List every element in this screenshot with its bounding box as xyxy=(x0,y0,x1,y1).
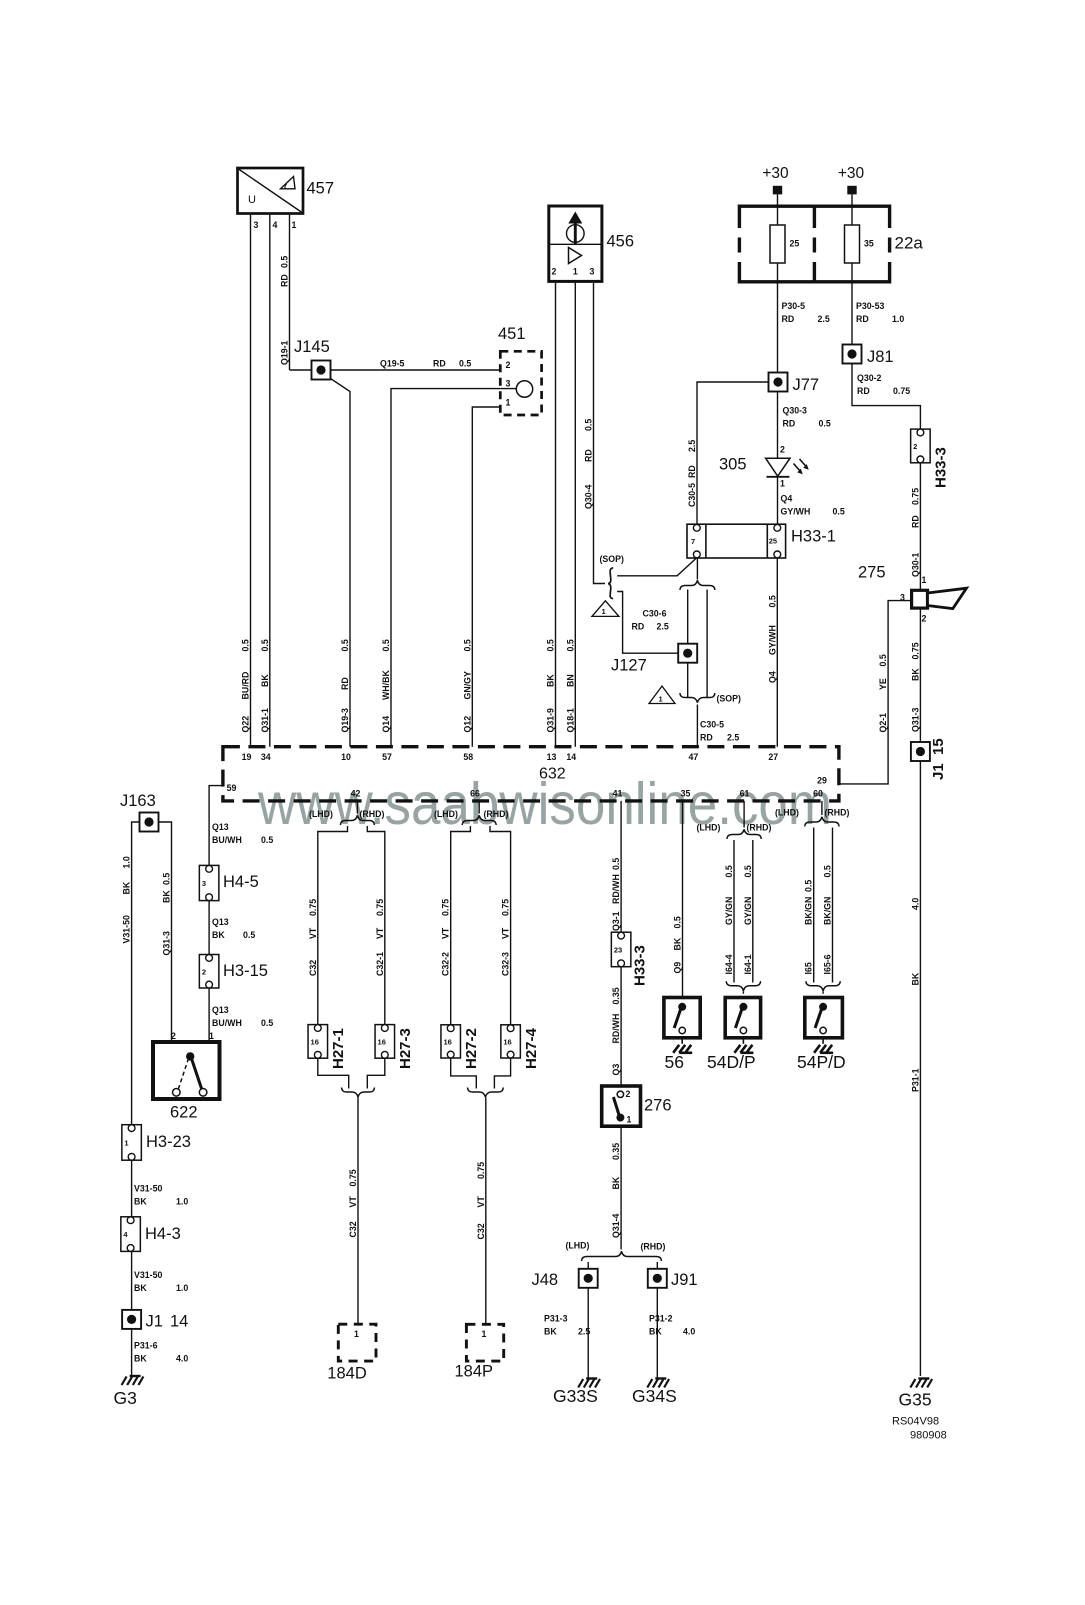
svg-text:P31-3: P31-3 xyxy=(544,1314,568,1324)
svg-text:(RHD): (RHD) xyxy=(484,809,509,819)
svg-text:(LHD): (LHD) xyxy=(566,1241,590,1251)
svg-text:C30-5: C30-5 xyxy=(687,483,697,507)
svg-text:0.5: 0.5 xyxy=(260,639,270,651)
svg-text:H33-1: H33-1 xyxy=(791,528,836,546)
svg-text:0.75: 0.75 xyxy=(308,899,318,916)
svg-text:VT: VT xyxy=(375,927,385,939)
svg-text:U: U xyxy=(248,194,256,206)
svg-text:I64-4: I64-4 xyxy=(724,954,734,974)
svg-text:4: 4 xyxy=(273,220,278,230)
svg-text:1: 1 xyxy=(659,695,663,704)
svg-text:VT: VT xyxy=(501,927,511,939)
svg-text:C32: C32 xyxy=(476,1223,486,1239)
svg-text:GY/WH: GY/WH xyxy=(767,625,777,655)
svg-text:J1 15: J1 15 xyxy=(930,738,947,780)
svg-text:34: 34 xyxy=(261,752,271,762)
svg-text:WH/BK: WH/BK xyxy=(381,670,391,700)
svg-text:BU/WH: BU/WH xyxy=(212,1018,242,1028)
svg-text:0.75: 0.75 xyxy=(910,488,920,505)
svg-text:RD: RD xyxy=(782,314,795,324)
svg-text:Q9: Q9 xyxy=(673,962,683,974)
svg-text:35: 35 xyxy=(864,239,874,249)
svg-text:BU/WH: BU/WH xyxy=(212,835,242,845)
svg-text:2: 2 xyxy=(780,445,785,455)
svg-text:BU/RD: BU/RD xyxy=(241,672,251,700)
svg-text:(RHD): (RHD) xyxy=(825,808,850,818)
svg-text:YE: YE xyxy=(878,678,888,690)
svg-text:Q30-3: Q30-3 xyxy=(783,406,808,416)
svg-text:3: 3 xyxy=(202,879,206,888)
svg-text:(RHD): (RHD) xyxy=(747,823,772,833)
svg-text:0.5: 0.5 xyxy=(162,873,172,885)
svg-text:1: 1 xyxy=(602,607,606,616)
svg-text:Q2-1: Q2-1 xyxy=(878,713,888,733)
svg-text:Q13: Q13 xyxy=(212,917,229,927)
svg-text:184P: 184P xyxy=(455,1363,494,1381)
svg-text:14: 14 xyxy=(566,752,576,762)
svg-text:3: 3 xyxy=(506,379,511,389)
svg-text:G35: G35 xyxy=(899,1390,932,1410)
svg-text:Q30-4: Q30-4 xyxy=(584,484,594,509)
svg-text:3: 3 xyxy=(589,267,594,277)
svg-text:Q19-1: Q19-1 xyxy=(280,340,290,365)
svg-text:305: 305 xyxy=(719,456,747,474)
svg-text:4.0: 4.0 xyxy=(683,1327,695,1337)
svg-text:VT: VT xyxy=(308,927,318,939)
svg-text:Q13: Q13 xyxy=(212,822,229,832)
svg-text:275: 275 xyxy=(858,564,886,582)
svg-text:1.0: 1.0 xyxy=(176,1197,188,1207)
svg-text:P31-6: P31-6 xyxy=(134,1341,158,1351)
svg-text:J77: J77 xyxy=(793,376,820,394)
svg-text:BK: BK xyxy=(546,674,556,687)
svg-text:19: 19 xyxy=(242,752,252,762)
svg-text:2: 2 xyxy=(171,1031,176,1041)
svg-text:(LHD): (LHD) xyxy=(434,809,458,819)
svg-text:0.5: 0.5 xyxy=(340,639,350,651)
svg-text:RD/WH: RD/WH xyxy=(611,874,621,904)
svg-text:0.5: 0.5 xyxy=(611,858,621,870)
svg-text:1: 1 xyxy=(124,1138,128,1147)
svg-text:456: 456 xyxy=(607,233,635,251)
svg-text:2: 2 xyxy=(202,967,206,976)
svg-text:632: 632 xyxy=(539,766,566,783)
svg-text:RD: RD xyxy=(856,314,869,324)
svg-text:1: 1 xyxy=(922,575,927,585)
svg-text:25: 25 xyxy=(790,239,800,249)
svg-text:Q14: Q14 xyxy=(381,716,391,733)
svg-text:2: 2 xyxy=(626,1089,631,1099)
svg-text:1.0: 1.0 xyxy=(892,314,904,324)
svg-text:54P/D: 54P/D xyxy=(797,1052,846,1072)
svg-text:RD: RD xyxy=(783,419,796,429)
svg-text:GY/WH: GY/WH xyxy=(781,507,811,517)
svg-text:Q12: Q12 xyxy=(462,716,472,733)
svg-text:0.75: 0.75 xyxy=(375,899,385,916)
svg-text:54D/P: 54D/P xyxy=(707,1052,756,1072)
svg-text:BK/GN: BK/GN xyxy=(804,897,814,925)
svg-text:BK: BK xyxy=(122,881,132,894)
svg-text:H27-3: H27-3 xyxy=(397,1028,414,1069)
svg-text:RD/WH: RD/WH xyxy=(611,1014,621,1044)
svg-text:16: 16 xyxy=(503,1037,511,1046)
svg-text:H4-5: H4-5 xyxy=(223,873,259,891)
svg-text:C32: C32 xyxy=(308,960,318,976)
svg-text:BK: BK xyxy=(544,1327,557,1337)
svg-text:C32-2: C32-2 xyxy=(441,952,451,976)
svg-text:G3: G3 xyxy=(114,1388,137,1408)
svg-text:(LHD): (LHD) xyxy=(697,823,721,833)
svg-text:0.5: 0.5 xyxy=(804,880,814,892)
svg-text:RD: RD xyxy=(857,386,870,396)
svg-text:16: 16 xyxy=(443,1037,451,1046)
svg-text:2: 2 xyxy=(506,360,511,370)
svg-text:59: 59 xyxy=(227,783,237,793)
svg-text:0.5: 0.5 xyxy=(381,639,391,651)
svg-text:2.5: 2.5 xyxy=(818,314,830,324)
svg-text:C32: C32 xyxy=(348,1221,358,1237)
svg-text:1.0: 1.0 xyxy=(176,1283,188,1293)
svg-text:0.5: 0.5 xyxy=(462,639,472,651)
svg-text:61: 61 xyxy=(740,789,750,799)
svg-text:0.5: 0.5 xyxy=(261,835,273,845)
svg-text:Q13: Q13 xyxy=(212,1005,229,1015)
svg-text:BK: BK xyxy=(212,930,225,940)
svg-text:RD: RD xyxy=(584,449,594,462)
svg-text:J1: J1 xyxy=(146,1313,163,1331)
svg-text:56: 56 xyxy=(665,1052,684,1072)
svg-text:1: 1 xyxy=(354,1329,359,1339)
svg-text:VT: VT xyxy=(476,1196,486,1208)
svg-text:1: 1 xyxy=(506,398,511,408)
svg-text:0.75: 0.75 xyxy=(893,386,910,396)
svg-text:Q31-1: Q31-1 xyxy=(260,708,270,733)
svg-text:H27-1: H27-1 xyxy=(330,1028,347,1069)
svg-text:(LHD): (LHD) xyxy=(775,808,799,818)
svg-text:0.75: 0.75 xyxy=(501,899,511,916)
svg-text:1.0: 1.0 xyxy=(122,856,132,868)
svg-text:H27-2: H27-2 xyxy=(463,1028,480,1069)
svg-text:BK/GN: BK/GN xyxy=(823,897,833,925)
svg-text:RS04V98: RS04V98 xyxy=(892,1416,939,1428)
svg-text:C30-5: C30-5 xyxy=(700,720,724,730)
svg-text:0.5: 0.5 xyxy=(833,507,845,517)
svg-text:0.75: 0.75 xyxy=(476,1162,486,1179)
svg-text:1: 1 xyxy=(573,267,578,277)
svg-text:RD: RD xyxy=(340,677,350,690)
svg-text:10: 10 xyxy=(341,752,351,762)
svg-text:+30: +30 xyxy=(762,165,789,182)
svg-text:0.5: 0.5 xyxy=(261,1018,273,1028)
svg-text:0.5: 0.5 xyxy=(724,865,734,877)
svg-text:1: 1 xyxy=(209,1031,214,1041)
svg-text:VT: VT xyxy=(441,927,451,939)
svg-text:Q31-4: Q31-4 xyxy=(611,1213,621,1238)
svg-text:0.5: 0.5 xyxy=(878,654,888,666)
svg-text:276: 276 xyxy=(644,1097,672,1115)
svg-text:622: 622 xyxy=(170,1104,198,1122)
svg-text:35: 35 xyxy=(681,789,691,799)
svg-text:GN/GY: GN/GY xyxy=(462,671,472,699)
svg-text:RD: RD xyxy=(280,274,290,287)
svg-text:BK: BK xyxy=(611,1176,621,1189)
svg-text:0.35: 0.35 xyxy=(611,1143,621,1160)
svg-text:2.5: 2.5 xyxy=(687,440,697,452)
svg-text:BK: BK xyxy=(673,937,683,950)
svg-text:GY/GN: GY/GN xyxy=(743,897,753,925)
svg-text:Q30-2: Q30-2 xyxy=(857,373,882,383)
svg-text:BK: BK xyxy=(649,1327,662,1337)
svg-text:4.0: 4.0 xyxy=(910,898,920,910)
svg-text:+30: +30 xyxy=(838,165,865,182)
svg-text:(RHD): (RHD) xyxy=(360,809,385,819)
svg-text:457: 457 xyxy=(307,180,335,198)
svg-text:0.5: 0.5 xyxy=(243,930,255,940)
svg-text:GY/GN: GY/GN xyxy=(724,897,734,925)
svg-text:0.5: 0.5 xyxy=(459,359,471,369)
svg-text:4.0: 4.0 xyxy=(176,1354,188,1364)
svg-text:C30-6: C30-6 xyxy=(643,609,667,619)
svg-text:3: 3 xyxy=(254,220,259,230)
svg-text:I65: I65 xyxy=(804,962,814,974)
svg-text:H27-4: H27-4 xyxy=(523,1027,540,1069)
svg-text:1: 1 xyxy=(482,1329,487,1339)
svg-text:41: 41 xyxy=(613,789,623,799)
svg-text:BK: BK xyxy=(910,972,920,985)
svg-text:60: 60 xyxy=(813,789,823,799)
svg-text:23: 23 xyxy=(614,945,622,954)
svg-text:27: 27 xyxy=(768,752,778,762)
svg-text:G33S: G33S xyxy=(553,1386,598,1406)
svg-text:BK: BK xyxy=(910,668,920,681)
svg-text:2: 2 xyxy=(922,614,927,624)
svg-text:16: 16 xyxy=(378,1037,386,1046)
svg-text:G34S: G34S xyxy=(632,1386,677,1406)
svg-text:(SOP): (SOP) xyxy=(600,554,625,564)
svg-text:7: 7 xyxy=(691,537,695,546)
svg-text:2: 2 xyxy=(551,267,556,277)
svg-text:(SOP): (SOP) xyxy=(717,694,742,704)
svg-text:J81: J81 xyxy=(867,348,894,366)
svg-text:Q19-3: Q19-3 xyxy=(340,708,350,733)
svg-text:Q18-1: Q18-1 xyxy=(565,708,575,733)
svg-text:H4-3: H4-3 xyxy=(145,1225,181,1243)
svg-text:1: 1 xyxy=(292,220,297,230)
svg-text:0.75: 0.75 xyxy=(441,899,451,916)
svg-text:BK: BK xyxy=(134,1197,147,1207)
svg-text:0.75: 0.75 xyxy=(910,642,920,659)
svg-text:0.5: 0.5 xyxy=(673,916,683,928)
svg-text:2.5: 2.5 xyxy=(578,1327,590,1337)
svg-text:58: 58 xyxy=(463,752,473,762)
svg-text:29: 29 xyxy=(817,776,827,786)
svg-text:Q4: Q4 xyxy=(781,494,793,504)
svg-text:0.5: 0.5 xyxy=(584,419,594,431)
svg-text:J91: J91 xyxy=(671,1271,698,1289)
svg-text:0.35: 0.35 xyxy=(611,987,621,1004)
svg-text:0.5: 0.5 xyxy=(565,639,575,651)
svg-text:Q30-1: Q30-1 xyxy=(910,552,920,577)
svg-text:J145: J145 xyxy=(294,338,330,356)
svg-text:RD: RD xyxy=(910,515,920,528)
svg-text:0.5: 0.5 xyxy=(823,865,833,877)
svg-text:42: 42 xyxy=(351,789,361,799)
svg-text:2: 2 xyxy=(913,442,917,451)
svg-text:0.75: 0.75 xyxy=(348,1169,358,1186)
svg-text:3: 3 xyxy=(900,593,905,603)
svg-text:Q19-5: Q19-5 xyxy=(380,359,405,369)
svg-text:0.5: 0.5 xyxy=(819,419,831,429)
svg-text:980908: 980908 xyxy=(910,1430,947,1442)
svg-text:2.5: 2.5 xyxy=(657,622,669,632)
svg-text:(RHD): (RHD) xyxy=(641,1242,666,1252)
svg-text:C32-1: C32-1 xyxy=(375,952,385,976)
svg-text:BK: BK xyxy=(134,1283,147,1293)
svg-text:J127: J127 xyxy=(611,657,647,675)
svg-text:(LHD): (LHD) xyxy=(309,809,333,819)
svg-text:P31-1: P31-1 xyxy=(910,1068,920,1092)
svg-text:16: 16 xyxy=(311,1037,319,1046)
svg-text:47: 47 xyxy=(689,752,699,762)
svg-text:Q3: Q3 xyxy=(611,1064,621,1076)
svg-text:1: 1 xyxy=(627,1115,632,1125)
svg-text:J163: J163 xyxy=(120,792,156,810)
svg-text:BK: BK xyxy=(134,1354,147,1364)
svg-text:BK: BK xyxy=(162,890,172,903)
svg-text:C32-3: C32-3 xyxy=(501,952,511,976)
svg-text:0.5: 0.5 xyxy=(546,639,556,651)
svg-text:Q31-3: Q31-3 xyxy=(910,707,920,732)
svg-text:14: 14 xyxy=(170,1313,188,1331)
svg-text:J48: J48 xyxy=(532,1271,559,1289)
svg-text:Q31-3: Q31-3 xyxy=(162,931,172,956)
svg-text:1: 1 xyxy=(780,479,785,489)
svg-text:H3-23: H3-23 xyxy=(146,1133,191,1151)
svg-text:H33-3: H33-3 xyxy=(933,447,950,488)
svg-text:V31-50: V31-50 xyxy=(134,1184,162,1194)
svg-text:H3-15: H3-15 xyxy=(223,962,268,980)
svg-text:RD: RD xyxy=(433,359,446,369)
svg-text:451: 451 xyxy=(498,325,526,343)
svg-text:P30-53: P30-53 xyxy=(856,301,884,311)
svg-text:P30-5: P30-5 xyxy=(782,301,806,311)
svg-text:66: 66 xyxy=(470,789,480,799)
svg-text:V31-50: V31-50 xyxy=(122,915,132,943)
svg-text:BK: BK xyxy=(260,674,270,687)
svg-text:0.5: 0.5 xyxy=(767,595,777,607)
svg-text:57: 57 xyxy=(382,752,392,762)
svg-text:Q4: Q4 xyxy=(767,671,777,683)
svg-text:184D: 184D xyxy=(327,1365,367,1383)
svg-text:Q22: Q22 xyxy=(241,716,251,733)
svg-text:2.5: 2.5 xyxy=(727,733,739,743)
svg-text:RD: RD xyxy=(632,622,645,632)
svg-text:13: 13 xyxy=(547,752,557,762)
svg-text:0.5: 0.5 xyxy=(280,256,290,268)
svg-text:0.5: 0.5 xyxy=(241,639,251,651)
svg-text:0.5: 0.5 xyxy=(743,865,753,877)
svg-text:22a: 22a xyxy=(895,234,924,253)
svg-text:RD: RD xyxy=(687,465,697,478)
svg-text:P31-2: P31-2 xyxy=(649,1314,673,1324)
svg-text:RD: RD xyxy=(700,733,713,743)
svg-text:Q31-9: Q31-9 xyxy=(546,708,556,733)
svg-text:BN: BN xyxy=(565,674,575,687)
svg-text:Q3-1: Q3-1 xyxy=(611,911,621,931)
svg-text:V31-50: V31-50 xyxy=(134,1270,162,1280)
svg-text:I64-1: I64-1 xyxy=(743,954,753,974)
svg-text:25: 25 xyxy=(769,537,777,546)
svg-text:I65-6: I65-6 xyxy=(823,954,833,974)
svg-text:VT: VT xyxy=(348,1196,358,1208)
svg-text:H33-3: H33-3 xyxy=(632,945,649,986)
